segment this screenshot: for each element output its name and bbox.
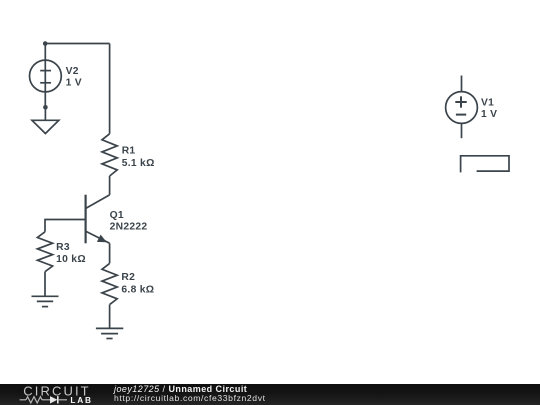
voltage source V2 [30,44,62,108]
wire V2 negative to ground [44,107,46,120]
wire R2 to ground [109,305,111,329]
resistor R1 [102,134,117,176]
wire Q1 base to R3 [45,220,86,232]
ground under R3 [32,296,59,306]
resistor R3 [37,232,52,272]
svg-text:http://circuitlab.com/cfe33bfz: http://circuitlab.com/cfe33bfzn2dvt [114,393,266,403]
junction dot at V2 negative terminal [43,105,48,110]
footer bar [0,384,540,405]
ground (earth triangle) under V2 [32,120,59,133]
wire node A down to R1 [109,44,111,134]
wire top rail from V2 positive to R1 [45,43,109,45]
CircuitLab logo circuit drawing (resistor and diode) [20,396,67,403]
resistor R2 [102,263,117,304]
wire R3 to ground [44,272,46,297]
svg-text:LAB: LAB [70,395,92,405]
voltage source V1 [446,76,478,139]
wire Q1 emitter to R2 [109,243,111,263]
wire unconnected stub (open loop) below V1 [461,156,509,173]
wire R1 to Q1 collector [109,176,111,195]
transistor Q1 (NPN) [86,195,110,244]
ground under R2 [96,328,123,338]
junction dot node at V2 positive terminal [43,41,48,46]
